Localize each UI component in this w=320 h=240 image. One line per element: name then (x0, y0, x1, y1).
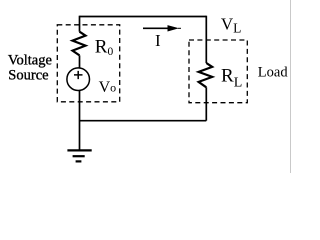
svg-text:I: I (155, 31, 161, 50)
wire source to ground (79, 90, 81, 150)
svg-text:Load: Load (258, 64, 289, 80)
resistor RL (199, 63, 213, 87)
wire resistor to source (79, 55, 81, 68)
load dashed box (189, 40, 247, 103)
page right border (290, 0, 292, 173)
voltage source dashed box (57, 25, 119, 102)
wire right vertical (top) (205, 16, 207, 63)
ground (67, 150, 91, 161)
svg-text:Vo: Vo (99, 79, 117, 96)
wire bottom (80, 120, 207, 122)
svg-text:Voltage: Voltage (8, 52, 52, 68)
current arrow (143, 27, 169, 29)
plus sign (74, 71, 83, 79)
voltage source V_o circle (67, 68, 90, 91)
wire RL to bottom (205, 87, 207, 120)
wire top (80, 16, 207, 18)
wire left vertical (top) (79, 16, 81, 32)
svg-text:Source: Source (8, 68, 48, 84)
resistor R0 (73, 32, 86, 56)
